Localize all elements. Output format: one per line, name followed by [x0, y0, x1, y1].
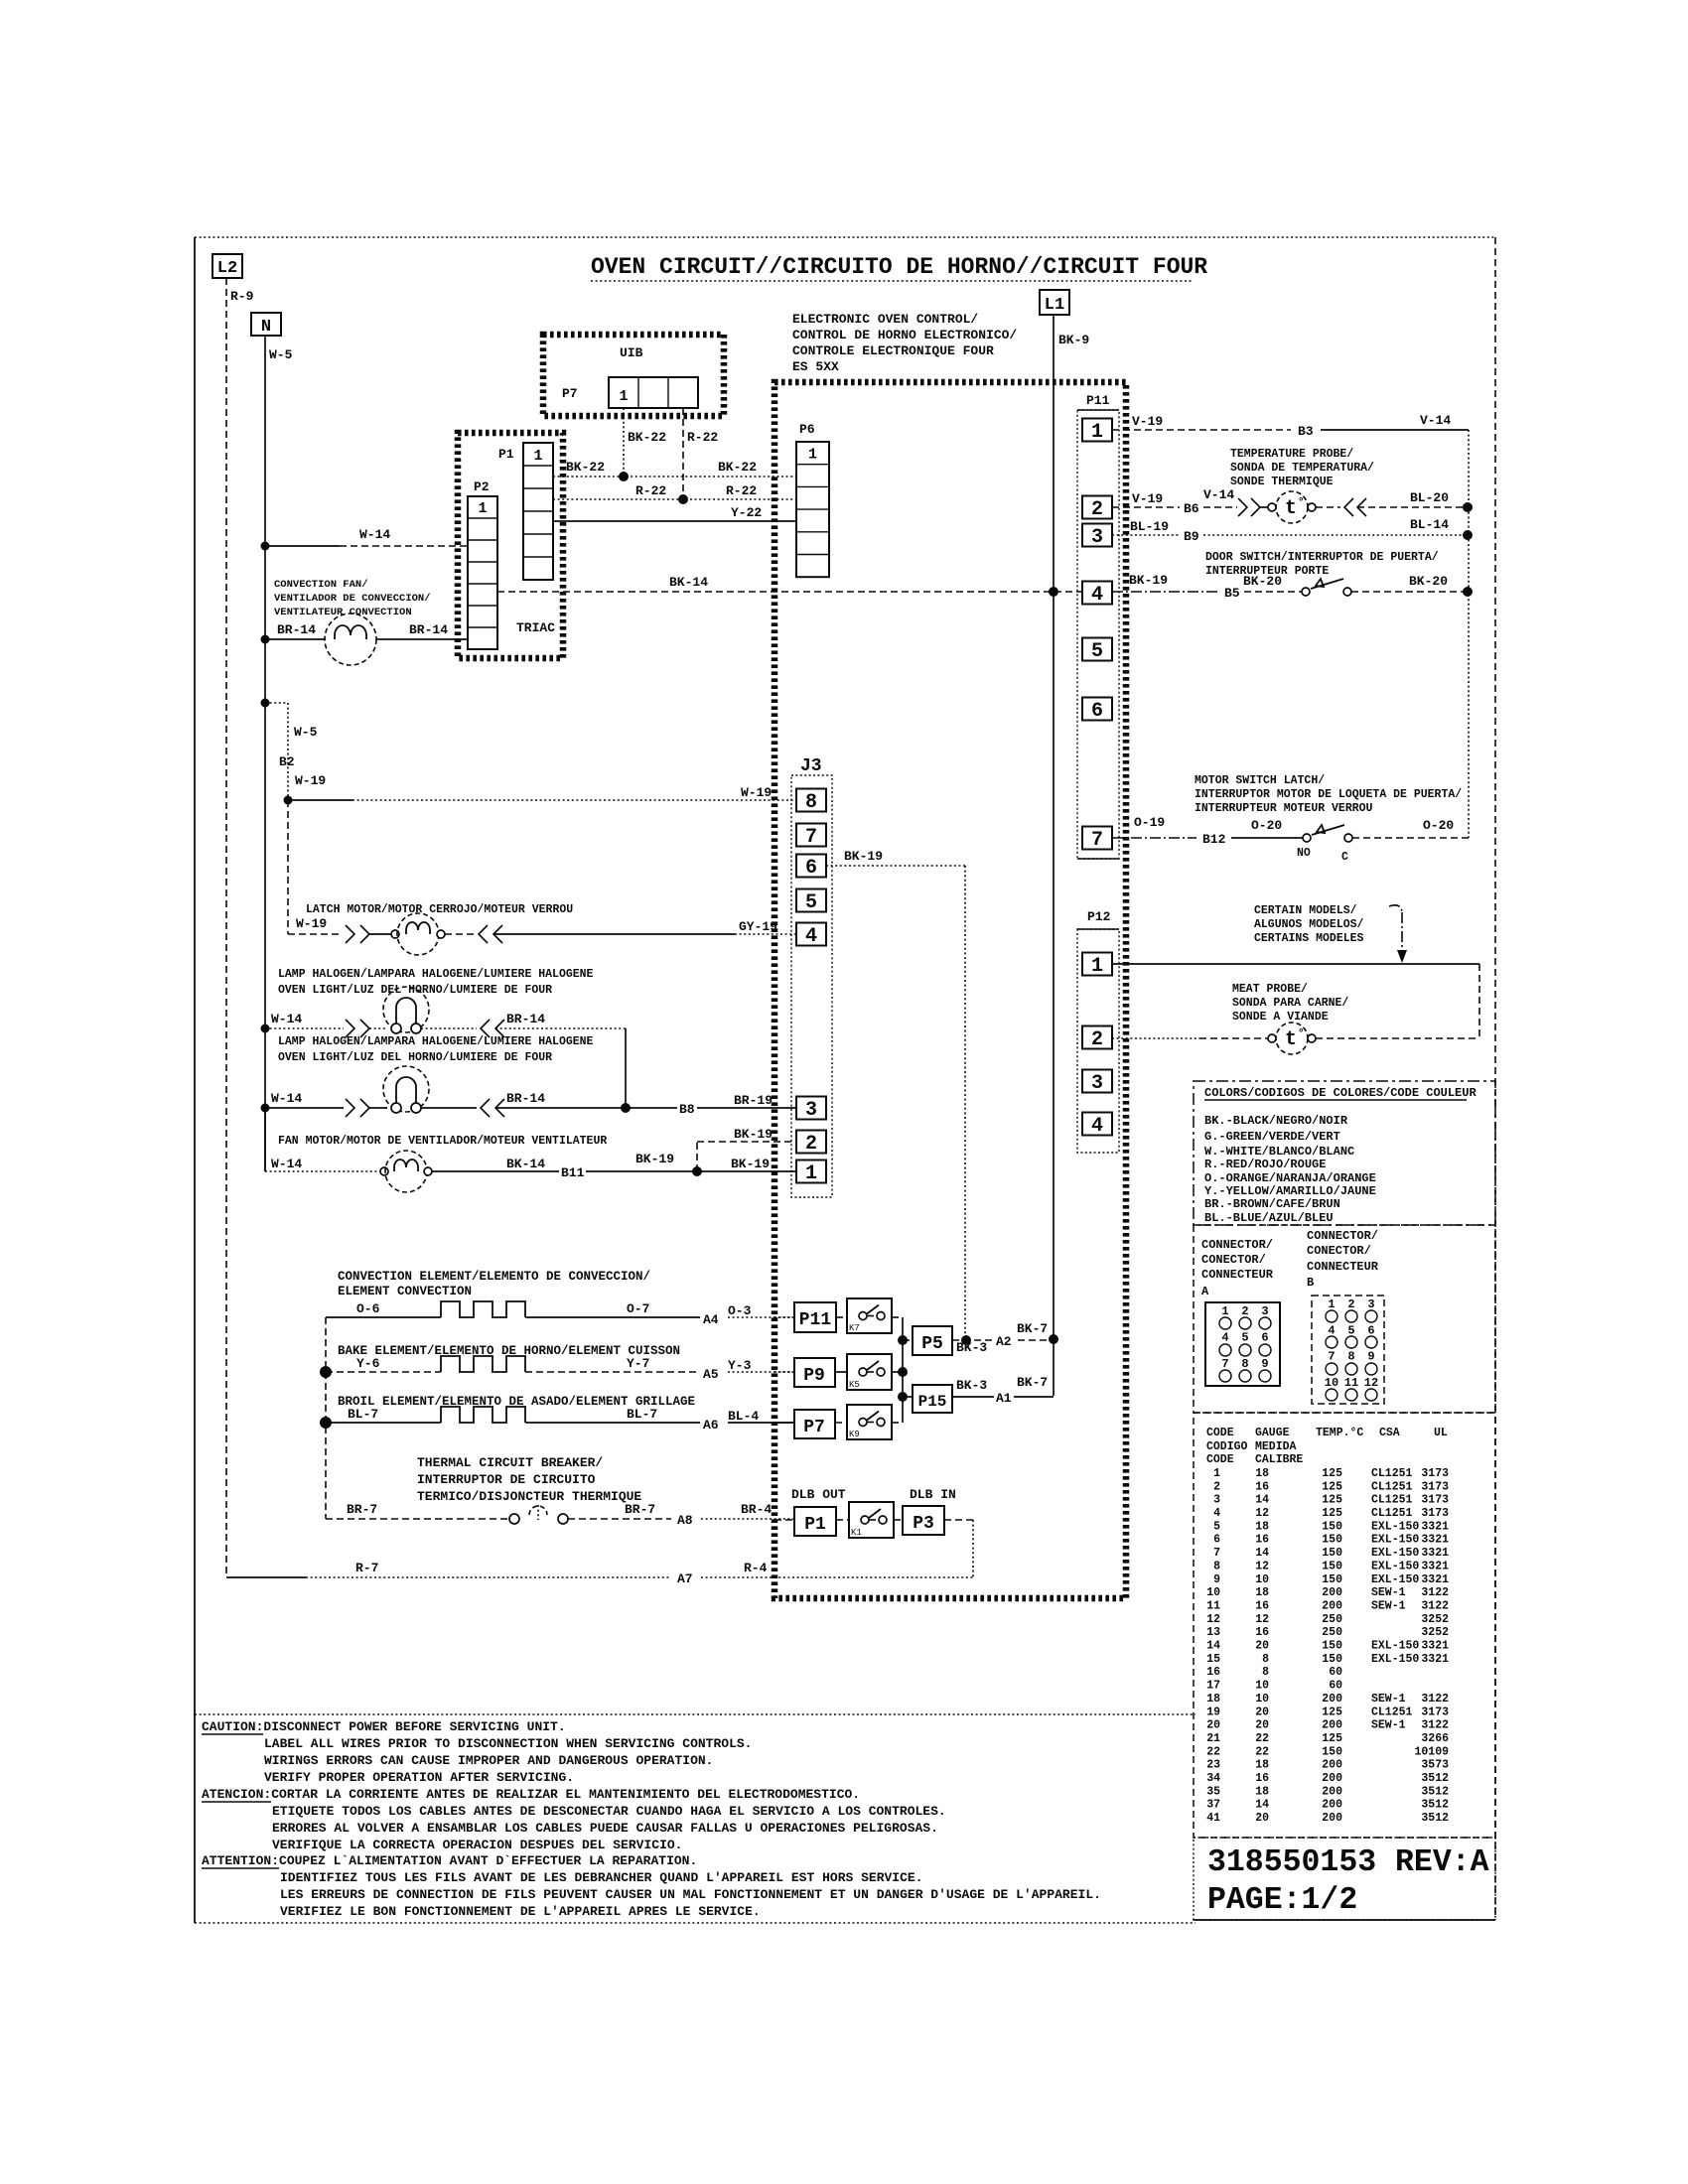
- svg-text:EXL-150: EXL-150: [1371, 1640, 1419, 1653]
- svg-text:L2: L2: [217, 259, 237, 278]
- wire L1 BK-9 bus: [1053, 315, 1055, 1396]
- svg-text:BK-22: BK-22: [718, 460, 757, 475]
- svg-text:200: 200: [1322, 1719, 1342, 1732]
- svg-text:Y-7: Y-7: [627, 1356, 649, 1371]
- connector chevrons: [346, 1020, 354, 1037]
- svg-text:16: 16: [1255, 1480, 1269, 1493]
- svg-text:C: C: [1341, 851, 1348, 864]
- svg-text:PAGE:1/2: PAGE:1/2: [1207, 1883, 1357, 1918]
- svg-text:20: 20: [1255, 1812, 1269, 1825]
- page border top: [195, 236, 1495, 238]
- wire R-22 net: [553, 498, 796, 500]
- svg-text:2: 2: [1241, 1304, 1248, 1318]
- svg-text:20: 20: [1255, 1719, 1269, 1732]
- svg-text:7: 7: [1221, 1357, 1228, 1371]
- svg-text:ETIQUETE TODOS LOS CABLES ANTE: ETIQUETE TODOS LOS CABLES ANTES DE DESCO…: [272, 1804, 946, 1819]
- svg-text:9: 9: [1367, 1350, 1374, 1364]
- svg-text:41: 41: [1206, 1812, 1220, 1825]
- svg-text:3321: 3321: [1421, 1547, 1449, 1560]
- wire BK-22 net: [553, 476, 796, 478]
- motor convection fan: [325, 614, 376, 665]
- svg-text:BR-14: BR-14: [506, 1012, 545, 1026]
- wire V-19 B6 from P11 pin2: [1112, 506, 1180, 508]
- svg-text:BR.-BROWN/CAFE/BRUN: BR.-BROWN/CAFE/BRUN: [1204, 1197, 1340, 1211]
- motor fan: [380, 1167, 388, 1175]
- svg-text:3122: 3122: [1421, 1693, 1449, 1706]
- svg-text:V-14: V-14: [1203, 487, 1234, 502]
- svg-text:P9: P9: [803, 1366, 825, 1386]
- svg-text:UIB: UIB: [620, 345, 643, 360]
- svg-text:EXL-150: EXL-150: [1371, 1653, 1419, 1666]
- svg-text:Y-3: Y-3: [728, 1358, 752, 1373]
- svg-text:EXL-150: EXL-150: [1371, 1560, 1419, 1572]
- wire element bus vertical: [325, 1317, 327, 1519]
- svg-text:COLORS/CODIGOS DE COLORES/CODE: COLORS/CODIGOS DE COLORES/CODE COULEUR: [1204, 1086, 1477, 1100]
- svg-text:CAUTION:DISCONNECT POWER BEFOR: CAUTION:DISCONNECT POWER BEFORE SERVICIN…: [202, 1719, 566, 1734]
- svg-text:Y-6: Y-6: [356, 1356, 380, 1371]
- svg-text:11: 11: [1344, 1376, 1358, 1390]
- svg-text:1: 1: [1091, 421, 1103, 444]
- svg-text:A4: A4: [703, 1312, 719, 1327]
- svg-text:TEMPERATURE PROBE/: TEMPERATURE PROBE/: [1230, 448, 1353, 461]
- svg-text:1: 1: [478, 500, 487, 517]
- svg-text:2: 2: [805, 1133, 817, 1156]
- svg-text:VERIFY PROPER OPERATION AFTER: VERIFY PROPER OPERATION AFTER SERVICING.: [264, 1770, 574, 1785]
- connectors legend box: [1194, 1225, 1495, 1413]
- svg-text:WIRINGS ERRORS CAN CAUSE IMPRO: WIRINGS ERRORS CAN CAUSE IMPROPER AND DA…: [264, 1753, 713, 1768]
- svg-text:DOOR SWITCH/INTERRUPTOR DE PUE: DOOR SWITCH/INTERRUPTOR DE PUERTA/: [1205, 551, 1439, 564]
- temperature probe: [1276, 491, 1308, 523]
- connector chevrons: [1344, 498, 1353, 516]
- svg-text:3321: 3321: [1421, 1653, 1449, 1666]
- svg-text:4: 4: [1091, 1115, 1103, 1138]
- svg-text:BK-19: BK-19: [731, 1157, 770, 1171]
- svg-text:4: 4: [805, 925, 817, 948]
- junction BK-7 on L1 bus: [1049, 1334, 1058, 1344]
- junction BL-20: [1463, 502, 1473, 512]
- svg-text:W-14: W-14: [271, 1012, 302, 1026]
- svg-text:3252: 3252: [1421, 1626, 1449, 1639]
- svg-text:8: 8: [1241, 1357, 1248, 1371]
- svg-text:P5: P5: [921, 1334, 943, 1354]
- svg-text:CONNECTOR/: CONNECTOR/: [1201, 1238, 1273, 1252]
- svg-text:O-20: O-20: [1423, 818, 1454, 833]
- svg-text:CONNECTEUR: CONNECTEUR: [1201, 1268, 1274, 1282]
- svg-text:4: 4: [1221, 1331, 1228, 1345]
- svg-text:MEAT PROBE/: MEAT PROBE/: [1232, 983, 1308, 996]
- svg-text:ELEMENT CONVECTION: ELEMENT CONVECTION: [338, 1285, 472, 1298]
- svg-text:A6: A6: [703, 1418, 719, 1433]
- svg-text:2: 2: [1213, 1480, 1220, 1493]
- svg-text:W-5: W-5: [269, 347, 293, 362]
- connector chevrons right: [346, 925, 354, 943]
- svg-text:3: 3: [805, 1099, 817, 1122]
- svg-text:1: 1: [1221, 1304, 1228, 1318]
- lamp oven light 2: [383, 1066, 429, 1112]
- svg-text:B6: B6: [1184, 501, 1199, 516]
- svg-text:BL-7: BL-7: [348, 1407, 378, 1422]
- svg-text:150: 150: [1322, 1640, 1342, 1653]
- svg-text:SONDE THERMIQUE: SONDE THERMIQUE: [1230, 476, 1334, 488]
- svg-text:SONDA DE TEMPERATURA/: SONDA DE TEMPERATURA/: [1230, 462, 1374, 475]
- connector A pin grid: [1205, 1302, 1280, 1386]
- svg-text:BR-4: BR-4: [741, 1502, 772, 1517]
- svg-text:W.-WHITE/BLANCO/BLANC: W.-WHITE/BLANCO/BLANC: [1204, 1145, 1354, 1159]
- svg-text:8: 8: [805, 791, 817, 814]
- svg-text:O-7: O-7: [627, 1301, 649, 1316]
- wire branch to J3 pin2: [696, 1142, 698, 1171]
- svg-text:CERTAIN MODELS/: CERTAIN MODELS/: [1254, 904, 1357, 917]
- svg-text:16: 16: [1255, 1772, 1269, 1785]
- svg-text:20: 20: [1255, 1706, 1269, 1718]
- svg-text:200: 200: [1322, 1586, 1342, 1599]
- junction lamp2 on N bus: [261, 1104, 270, 1113]
- wire BR-14 right: [376, 638, 468, 640]
- wire gauge table box: [1194, 1413, 1495, 1838]
- junction BR-14 return: [621, 1103, 631, 1113]
- wire BK-19 vertical to P5 node: [964, 866, 966, 1340]
- svg-text:3321: 3321: [1421, 1560, 1449, 1572]
- wire GY-19 to J3 pin4: [493, 933, 735, 935]
- svg-text:O.-ORANGE/NARANJA/ORANGE: O.-ORANGE/NARANJA/ORANGE: [1204, 1171, 1376, 1185]
- heater convection element: [441, 1301, 525, 1317]
- svg-text:150: 150: [1322, 1573, 1342, 1586]
- svg-text:150: 150: [1322, 1534, 1342, 1547]
- svg-text:1: 1: [533, 448, 542, 465]
- svg-text:B5: B5: [1224, 586, 1240, 601]
- wire P3 to R-4: [944, 1519, 973, 1521]
- svg-text:A2: A2: [996, 1334, 1012, 1349]
- svg-text:VENTILATEUR CONVECTION: VENTILATEUR CONVECTION: [274, 607, 412, 618]
- wire lamp2 left: [265, 1107, 344, 1109]
- svg-text:3173: 3173: [1421, 1480, 1449, 1493]
- svg-text:BR-14: BR-14: [277, 622, 316, 637]
- svg-text:R-7: R-7: [355, 1561, 378, 1575]
- connector P9 relay: [794, 1358, 835, 1387]
- svg-text:125: 125: [1322, 1494, 1342, 1507]
- connector P7 relay: [794, 1410, 835, 1438]
- svg-text:CONNECTOR/: CONNECTOR/: [1307, 1229, 1378, 1243]
- svg-text:250: 250: [1322, 1613, 1342, 1626]
- svg-text:BK-7: BK-7: [1017, 1321, 1048, 1336]
- svg-text:W-19: W-19: [741, 785, 772, 800]
- svg-text:R-22: R-22: [635, 483, 666, 498]
- svg-text:CONECTOR/: CONECTOR/: [1307, 1244, 1371, 1258]
- connector P1 relay: [794, 1507, 836, 1536]
- svg-text:GAUGE: GAUGE: [1255, 1427, 1290, 1439]
- svg-text:16: 16: [1206, 1666, 1220, 1679]
- svg-text:OVEN LIGHT/LUZ DEL HORNO/LUMIE: OVEN LIGHT/LUZ DEL HORNO/LUMIERE DE FOUR: [278, 984, 552, 997]
- svg-text:18: 18: [1255, 1785, 1269, 1798]
- svg-text:BK-7: BK-7: [1017, 1375, 1048, 1390]
- svg-text:R-22: R-22: [726, 483, 757, 498]
- svg-text:K7: K7: [849, 1323, 860, 1333]
- svg-text:ALGUNOS MODELOS/: ALGUNOS MODELOS/: [1254, 918, 1364, 931]
- wire N bus vertical: [264, 336, 266, 1171]
- svg-text:DLB IN: DLB IN: [910, 1487, 956, 1502]
- wire R-4 row: [701, 1576, 973, 1578]
- svg-text:7: 7: [1328, 1350, 1335, 1364]
- svg-text:W-14: W-14: [359, 527, 390, 542]
- node N: [251, 313, 281, 336]
- part number box: [1194, 1838, 1495, 1920]
- svg-text:EXL-150: EXL-150: [1371, 1573, 1419, 1586]
- svg-text:BK-9: BK-9: [1058, 333, 1089, 347]
- svg-text:VERIFIQUE LA CORRECTA OPERACIO: VERIFIQUE LA CORRECTA OPERACION DESPUES …: [272, 1838, 682, 1852]
- svg-text:ELECTRONIC OVEN CONTROL/: ELECTRONIC OVEN CONTROL/: [792, 312, 978, 327]
- svg-text:200: 200: [1322, 1799, 1342, 1812]
- svg-text:125: 125: [1322, 1480, 1342, 1493]
- svg-text:LES ERREURS DE CONNECTION DE F: LES ERREURS DE CONNECTION DE FILS PEUVEN…: [280, 1887, 1101, 1902]
- svg-text:CSA: CSA: [1379, 1427, 1400, 1439]
- node L2: [212, 254, 242, 278]
- svg-text:34: 34: [1206, 1772, 1220, 1785]
- wire BR-7 row: [326, 1518, 509, 1520]
- svg-text:1: 1: [619, 388, 628, 405]
- wire meat probe right side: [1478, 964, 1480, 1038]
- svg-text:ES 5XX: ES 5XX: [792, 359, 839, 374]
- svg-text:A7: A7: [677, 1571, 693, 1586]
- connector P5: [898, 1335, 908, 1345]
- svg-text:200: 200: [1322, 1600, 1342, 1613]
- relay K7: [836, 1316, 847, 1318]
- svg-text:1: 1: [1091, 955, 1103, 978]
- wire lamp2 right: [421, 1107, 477, 1109]
- svg-text:22: 22: [1255, 1732, 1269, 1745]
- connector chevrons: [481, 1099, 490, 1117]
- relay K5: [835, 1371, 847, 1373]
- svg-text:22: 22: [1206, 1745, 1220, 1758]
- svg-text:17: 17: [1206, 1680, 1220, 1693]
- svg-text:BK-19: BK-19: [734, 1127, 773, 1142]
- svg-text:3: 3: [1213, 1494, 1220, 1507]
- wire bake element row: [326, 1371, 441, 1373]
- svg-text:P7: P7: [562, 386, 578, 401]
- wire: [369, 933, 391, 935]
- svg-text:7: 7: [1213, 1547, 1220, 1560]
- svg-text:12: 12: [1364, 1376, 1378, 1390]
- meat probe: [1276, 1023, 1308, 1054]
- connector UIB box: [543, 335, 724, 416]
- svg-text:t: t: [1285, 497, 1297, 520]
- svg-text:16: 16: [1255, 1534, 1269, 1547]
- svg-text:11: 11: [1206, 1600, 1220, 1613]
- svg-text:BR-7: BR-7: [625, 1502, 655, 1517]
- svg-text:CONVECTION ELEMENT/ELEMENTO DE: CONVECTION ELEMENT/ELEMENTO DE CONVECCIO…: [338, 1270, 650, 1284]
- svg-text:9: 9: [1261, 1357, 1268, 1371]
- door switch: [1302, 588, 1310, 596]
- svg-text:1: 1: [808, 447, 817, 464]
- svg-text:EXL-150: EXL-150: [1371, 1534, 1419, 1547]
- label B8: [677, 1103, 697, 1115]
- svg-text:°: °: [1298, 1028, 1305, 1040]
- wire L2 bus vertical: [225, 278, 227, 1577]
- svg-text:SONDA PARA CARNE/: SONDA PARA CARNE/: [1232, 997, 1348, 1010]
- svg-text:P3: P3: [913, 1514, 934, 1534]
- svg-text:B11: B11: [561, 1165, 585, 1180]
- arrow certain models: [1389, 905, 1402, 912]
- wire BK-14 B11: [432, 1170, 796, 1172]
- svg-text:60: 60: [1329, 1680, 1342, 1693]
- svg-text:150: 150: [1322, 1560, 1342, 1572]
- svg-text:NO: NO: [1297, 847, 1311, 860]
- svg-text:BK-3: BK-3: [956, 1340, 987, 1355]
- svg-text:19: 19: [1206, 1706, 1220, 1718]
- svg-text:12: 12: [1206, 1613, 1220, 1626]
- wire BR-7 A8 BR-4: [568, 1518, 671, 1520]
- svg-text:3173: 3173: [1421, 1507, 1449, 1520]
- svg-text:V-14: V-14: [1420, 413, 1451, 428]
- wire: [1316, 1037, 1479, 1039]
- svg-text:150: 150: [1322, 1520, 1342, 1533]
- svg-text:W-19: W-19: [295, 773, 326, 788]
- wire to P11 relay: [774, 1316, 794, 1318]
- svg-text:CODE: CODE: [1206, 1427, 1234, 1439]
- wire fan row from N bus corner: [264, 1108, 266, 1171]
- svg-text:MEDIDA: MEDIDA: [1255, 1440, 1297, 1453]
- svg-text:BK-19: BK-19: [844, 849, 883, 864]
- svg-text:A: A: [1201, 1285, 1209, 1298]
- svg-text:BK-3: BK-3: [956, 1378, 987, 1393]
- wire R-22 from P7 pin3: [682, 408, 684, 499]
- wire BK-20 right: [1351, 591, 1468, 593]
- svg-text:3321: 3321: [1421, 1573, 1449, 1586]
- svg-text:10: 10: [1325, 1376, 1338, 1390]
- svg-text:3512: 3512: [1421, 1772, 1449, 1785]
- svg-text:UL: UL: [1434, 1427, 1448, 1439]
- wire O-7 A4 O-3: [525, 1316, 700, 1318]
- wire Y-7 A5 Y-3: [525, 1371, 700, 1373]
- svg-text:TERMICO/DISJONCTEUR THERMIQUE: TERMICO/DISJONCTEUR THERMIQUE: [417, 1489, 641, 1504]
- svg-text:12: 12: [1255, 1507, 1269, 1520]
- junction B11: [692, 1166, 702, 1176]
- svg-text:18: 18: [1255, 1520, 1269, 1533]
- svg-text:DLB OUT: DLB OUT: [791, 1487, 846, 1502]
- svg-text:6: 6: [1213, 1534, 1220, 1547]
- svg-text:18: 18: [1206, 1693, 1220, 1706]
- svg-text:CL1251: CL1251: [1371, 1494, 1413, 1507]
- svg-text:R-9: R-9: [230, 289, 254, 304]
- svg-text:3173: 3173: [1421, 1467, 1449, 1480]
- svg-text:B9: B9: [1184, 529, 1199, 544]
- junction BK-22/P7: [619, 472, 629, 481]
- wire: [445, 933, 475, 935]
- svg-text:10: 10: [1255, 1693, 1269, 1706]
- svg-text:Y.-YELLOW/AMARILLO/JAUNE: Y.-YELLOW/AMARILLO/JAUNE: [1204, 1184, 1376, 1198]
- svg-text:J3: J3: [800, 756, 822, 776]
- wire BK-14 net from P2 to P11 pin4: [497, 591, 1082, 593]
- svg-text:CODE: CODE: [1206, 1453, 1234, 1466]
- svg-text:125: 125: [1322, 1467, 1342, 1480]
- svg-text:CALIBRE: CALIBRE: [1255, 1453, 1303, 1466]
- svg-text:W-14: W-14: [271, 1091, 302, 1106]
- svg-text:EXL-150: EXL-150: [1371, 1547, 1419, 1560]
- wire BL-19 B9 BL-14 from P11 pin3: [1112, 534, 1180, 536]
- svg-text:EXL-150: EXL-150: [1371, 1520, 1419, 1533]
- connector P15: [898, 1392, 908, 1402]
- wire BK-19 B5 from P11 pin4: [1112, 591, 1219, 593]
- svg-text:INTERRUPTEUR MOTEUR VERROU: INTERRUPTEUR MOTEUR VERROU: [1195, 802, 1373, 815]
- svg-text:10: 10: [1255, 1573, 1269, 1586]
- svg-text:8: 8: [1262, 1666, 1269, 1679]
- svg-text:6: 6: [1261, 1331, 1268, 1345]
- svg-text:BK-20: BK-20: [1409, 574, 1448, 589]
- wire BK-19 from J3 pin6: [826, 865, 965, 867]
- svg-text:Y-22: Y-22: [731, 505, 762, 520]
- junction BK-14 / L1 bus: [1049, 587, 1058, 597]
- svg-text:OVEN LIGHT/LUZ DEL HORNO/LUMIE: OVEN LIGHT/LUZ DEL HORNO/LUMIERE DE FOUR: [278, 1051, 552, 1064]
- svg-text:R.-RED/ROJO/ROUGE: R.-RED/ROJO/ROUGE: [1204, 1158, 1326, 1171]
- svg-text:14: 14: [1255, 1547, 1269, 1560]
- svg-text:18: 18: [1255, 1586, 1269, 1599]
- svg-text:3122: 3122: [1421, 1719, 1449, 1732]
- svg-text:V-19: V-19: [1132, 414, 1163, 429]
- svg-text:A8: A8: [677, 1513, 693, 1528]
- svg-text:12: 12: [1255, 1560, 1269, 1572]
- junction W-14 on N bus: [261, 542, 270, 551]
- wire V-19 B3 V-14 from P11 pin1: [1112, 429, 1291, 431]
- svg-text:3512: 3512: [1421, 1799, 1449, 1812]
- svg-text:BL-20: BL-20: [1410, 490, 1449, 505]
- wire convection element row: [326, 1316, 441, 1318]
- svg-text:125: 125: [1322, 1706, 1342, 1718]
- svg-text:P2: P2: [474, 479, 490, 494]
- title underline: [591, 280, 1193, 282]
- svg-text:N: N: [261, 318, 271, 337]
- svg-text:10: 10: [1206, 1586, 1220, 1599]
- svg-text:B3: B3: [1298, 424, 1314, 439]
- svg-text:18: 18: [1255, 1467, 1269, 1480]
- svg-text:B12: B12: [1202, 832, 1226, 847]
- junction W-19 node B2: [284, 796, 293, 805]
- svg-text:IDENTIFIEZ TOUS LES FILS AVANT: IDENTIFIEZ TOUS LES FILS AVANT DE LES DE…: [280, 1870, 923, 1885]
- svg-text:G.-GREEN/VERDE/VERT: G.-GREEN/VERDE/VERT: [1204, 1130, 1340, 1144]
- junction BR-14 on N bus: [261, 635, 270, 644]
- svg-text:5: 5: [1091, 640, 1103, 663]
- svg-text:SONDE A VIANDE: SONDE A VIANDE: [1232, 1011, 1329, 1024]
- svg-text:125: 125: [1322, 1507, 1342, 1520]
- svg-text:VERIFIEZ LE BON FONCTIONNEMENT: VERIFIEZ LE BON FONCTIONNEMENT DE L'APPA…: [280, 1904, 761, 1919]
- relay K1: [836, 1519, 849, 1521]
- svg-text:SEW-1: SEW-1: [1371, 1693, 1406, 1706]
- wire O-20 right: [1352, 837, 1469, 839]
- connector chevrons: [481, 1020, 490, 1037]
- svg-text:BL-19: BL-19: [1130, 519, 1169, 534]
- motor latch: [391, 930, 399, 938]
- wire BK-22 from P7 pin1: [623, 408, 625, 477]
- svg-text:TEMP.°C: TEMP.°C: [1316, 1427, 1363, 1439]
- svg-text:3122: 3122: [1421, 1586, 1449, 1599]
- svg-text:P1: P1: [804, 1515, 826, 1535]
- svg-text:BK-22: BK-22: [628, 430, 666, 445]
- svg-text:O-6: O-6: [356, 1301, 380, 1316]
- svg-text:4: 4: [1213, 1507, 1220, 1520]
- svg-text:P15: P15: [918, 1393, 947, 1411]
- svg-text:23: 23: [1206, 1759, 1220, 1772]
- svg-text:4: 4: [1328, 1323, 1335, 1337]
- svg-text:200: 200: [1322, 1759, 1342, 1772]
- svg-text:O-19: O-19: [1134, 815, 1165, 830]
- node L1: [1040, 290, 1069, 315]
- svg-text:K5: K5: [849, 1380, 860, 1390]
- svg-text:BK-20: BK-20: [1243, 574, 1282, 589]
- relay K9: [835, 1422, 847, 1424]
- wire O-19 B12 from P11 pin7: [1112, 837, 1196, 839]
- svg-text:VENTILADOR DE CONVECCION/: VENTILADOR DE CONVECCION/: [274, 593, 431, 605]
- svg-text:5: 5: [1347, 1323, 1354, 1337]
- svg-text:318550153 REV:A: 318550153 REV:A: [1207, 1845, 1489, 1880]
- svg-text:LAMP HALOGEN/LAMPARA HALOGENE/: LAMP HALOGEN/LAMPARA HALOGENE/LUMIERE HA…: [278, 968, 594, 981]
